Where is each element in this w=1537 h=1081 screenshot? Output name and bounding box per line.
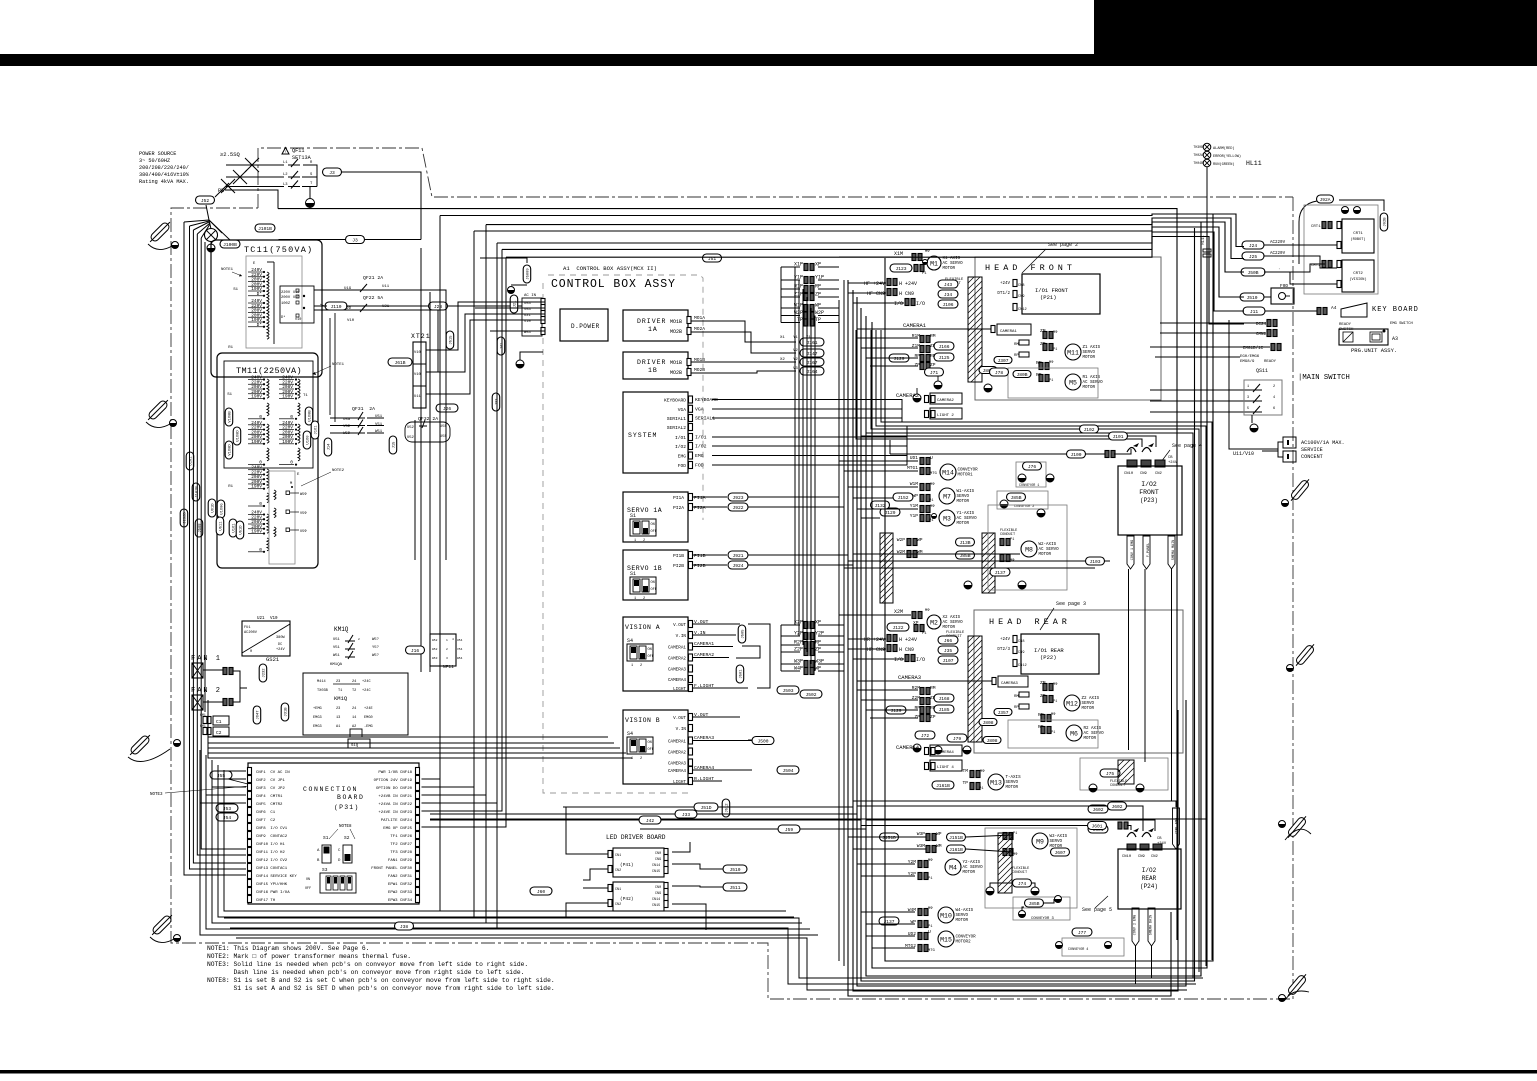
svg-text:TH04B: TH04B — [1193, 161, 1203, 165]
svg-text:J79: J79 — [953, 736, 962, 742]
svg-text:DT1/2: DT1/2 — [997, 291, 1010, 296]
J60 oval — [530, 887, 552, 895]
svg-text:J76: J76 — [1028, 464, 1037, 470]
svg-text:V54: V54 — [524, 308, 532, 312]
svg-text:PI2A: PI2A — [673, 505, 684, 511]
X2P right wires — [818, 625, 844, 671]
motor M1 — [890, 249, 963, 276]
svg-text:+EMG: +EMG — [313, 707, 322, 711]
svg-text:J923: J923 — [732, 495, 743, 501]
svg-text:J129: J129 — [890, 708, 901, 714]
J61B oval — [388, 358, 412, 366]
svg-text:I/O: I/O — [916, 301, 925, 307]
svg-text:CNF14 SERVICE KEY: CNF14 SERVICE KEY — [256, 875, 297, 879]
J15 voval — [389, 436, 397, 454]
svg-text:200/208/220/240/: 200/208/220/240/ — [139, 165, 189, 171]
svg-text:LIGHT 2: LIGHT 2 — [937, 414, 954, 418]
svg-text:MOTOR: MOTOR — [943, 626, 956, 630]
ground below AC IN — [516, 352, 543, 368]
svg-text:A1 CONTROL BOX ASSY(MCX II): A1 CONTROL BOX ASSY(MCX II) — [563, 265, 657, 272]
incoming lines with fuses — [215, 151, 284, 197]
svg-text:Z2 AXIS: Z2 AXIS — [1082, 697, 1100, 701]
see page 2 — [1022, 242, 1078, 273]
svg-text:AC SERVO: AC SERVO — [957, 517, 978, 521]
svg-text:1: 1 — [1247, 385, 1249, 389]
servo wire ovals J161-J164 — [780, 336, 824, 375]
svg-text:TX03B: TX03B — [317, 689, 329, 693]
svg-text:DC: DC — [278, 643, 282, 647]
svg-text:CONDUIT: CONDUIT — [1012, 871, 1028, 875]
D.POWER box — [560, 309, 608, 341]
svg-text:MOTOR: MOTOR — [963, 871, 976, 875]
motor M2 — [887, 608, 963, 636]
svg-text:DC24: DC24 — [1256, 323, 1267, 327]
fan2 — [191, 687, 233, 710]
vision wire drops — [736, 624, 770, 740]
bottom line J560 — [224, 918, 1203, 978]
svg-text:D*: D* — [281, 315, 286, 320]
XT21 wires — [369, 290, 522, 394]
svg-text:SERVO: SERVO — [1082, 702, 1095, 706]
svg-text:U11/V10: U11/V10 — [1233, 451, 1254, 457]
system box — [623, 392, 693, 473]
conveyor3 dashed — [1013, 896, 1070, 922]
svg-text:AC SERVO: AC SERVO — [1084, 732, 1105, 736]
svg-text:TM: TM — [962, 768, 968, 774]
svg-text:CAMERA4: CAMERA4 — [937, 751, 954, 755]
HF wires — [864, 279, 1027, 313]
motor M15 — [905, 929, 976, 953]
motor M12 — [1064, 695, 1100, 711]
svg-text:CN2: CN2 — [615, 903, 621, 907]
svg-text:≥2.5SQ: ≥2.5SQ — [220, 151, 241, 158]
svg-text:3: 3 — [1247, 396, 1249, 400]
J603 oval — [1051, 848, 1070, 856]
svg-text:I/O1: I/O1 — [695, 435, 707, 441]
svg-text:READY: READY — [1264, 360, 1277, 364]
svg-text:J167: J167 — [806, 360, 817, 366]
svg-text:24: 24 — [352, 707, 356, 711]
svg-text:ZP: ZP — [930, 362, 936, 368]
svg-text:VGA: VGA — [678, 407, 687, 413]
F0D box — [1271, 283, 1294, 304]
TM11 label — [236, 366, 302, 376]
svg-text:TF3 CNF28: TF3 CNF28 — [390, 851, 412, 855]
svg-text:M414: M414 — [317, 680, 326, 684]
svg-text:CNF1 CV AC IN: CNF1 CV AC IN — [256, 771, 290, 775]
svg-text:CNF13 CONTAC1: CNF13 CONTAC1 — [256, 867, 288, 871]
svg-text:EMG OP CNF25: EMG OP CNF25 — [383, 827, 412, 831]
svg-text:ON: ON — [648, 741, 652, 745]
svg-text:S1: S1 — [630, 513, 636, 519]
svg-text:P1: P1 — [1049, 379, 1053, 383]
J505 voval — [738, 625, 746, 643]
svg-text:MO2A: MO2A — [694, 326, 705, 332]
svg-text:J505: J505 — [742, 629, 746, 639]
I/O1 FRONT box — [1022, 274, 1100, 314]
svg-text:SERIAL1: SERIAL1 — [667, 416, 687, 422]
J100 line — [890, 440, 1131, 458]
svg-text:I/O1 FRONT: I/O1 FRONT — [1035, 287, 1069, 294]
vision A out labels — [692, 619, 748, 689]
svg-text:T-AXIS: T-AXIS — [1006, 776, 1022, 780]
svg-text:P1: P1 — [929, 519, 934, 523]
IO2F lozenge tails — [1129, 569, 1172, 801]
svg-text:EMG: EMG — [678, 454, 687, 460]
svg-text:V10: V10 — [414, 351, 422, 355]
svg-text:V51: V51 — [333, 646, 341, 650]
J92A oval — [1299, 195, 1334, 264]
svg-text:CN14: CN14 — [652, 864, 660, 868]
I/O1 REAR box — [1021, 634, 1099, 674]
svg-text:J921: J921 — [732, 553, 743, 559]
cable break left 3 — [127, 732, 180, 761]
TM11 outer box — [217, 353, 318, 568]
svg-text:HR CN9: HR CN9 — [867, 647, 885, 653]
svg-text:MΦ: MΦ — [980, 769, 985, 774]
J101B oval — [255, 224, 275, 232]
svg-text:EMG SWITCH: EMG SWITCH — [1390, 322, 1413, 326]
svg-text:MOTOR: MOTOR — [1006, 786, 1019, 790]
svg-text:QF21 2A: QF21 2A — [363, 275, 383, 281]
six line bundle — [856, 330, 1212, 978]
svg-text:CAMERA1: CAMERA1 — [668, 740, 686, 745]
svg-text:CONV 1 EMG: CONV 1 EMG — [1131, 540, 1135, 560]
IO2R bottom lozenges — [1132, 908, 1155, 984]
J59 line — [640, 825, 866, 833]
svg-text:J101: J101 — [1112, 434, 1123, 440]
HR wires — [864, 635, 1027, 669]
svg-text:J15: J15 — [393, 441, 397, 449]
svg-text:P1: P1 — [979, 787, 984, 791]
camera4 box — [896, 744, 962, 756]
svg-text:100Z: 100Z — [281, 302, 291, 306]
hatch conduit front — [968, 277, 982, 382]
svg-text:R2 AXIS: R2 AXIS — [1084, 727, 1102, 731]
svg-text:MOTOR: MOTOR — [1039, 553, 1052, 557]
svg-text:PI1B: PI1B — [694, 553, 706, 559]
control box assy dashed boundary — [543, 275, 703, 793]
svg-text:H CN9: H CN9 — [899, 647, 914, 653]
svg-text:J13B: J13B — [959, 540, 970, 546]
svg-text:J503: J503 — [782, 688, 793, 694]
J11 oval — [1243, 307, 1327, 315]
svg-text:NOTE2: NOTE2 — [332, 469, 345, 473]
svg-text:(P22): (P22) — [1040, 654, 1057, 661]
QF21 QF22 switches — [314, 275, 390, 323]
svg-text:J500: J500 — [757, 738, 768, 744]
servo oval wires — [748, 497, 853, 565]
svg-text:ZP: ZP — [914, 362, 920, 368]
svg-text:H CN9: H CN9 — [899, 291, 914, 297]
camera1 wire — [900, 322, 1031, 335]
NOTE1 tm11 — [312, 363, 345, 375]
motor M8 — [1021, 541, 1059, 557]
svg-text:J502: J502 — [805, 692, 816, 698]
PE fan cluster — [184, 190, 278, 242]
svg-text:ZP: ZP — [914, 714, 920, 720]
svg-text:W51: W51 — [333, 654, 341, 658]
connector pairs X1P-TP — [794, 262, 824, 327]
svg-text:J129: J129 — [893, 356, 904, 362]
svg-text:OPTION DO CNF20: OPTION DO CNF20 — [376, 787, 413, 791]
svg-text:See page 5: See page 5 — [1082, 907, 1112, 913]
svg-text:CRT1: CRT1 — [1311, 225, 1321, 229]
svg-text:1B: 1B — [648, 367, 658, 374]
svg-text:M7: M7 — [943, 494, 951, 501]
svg-text:M5: M5 — [1069, 380, 1077, 387]
svg-text:CNF9 CONTAC2: CNF9 CONTAC2 — [256, 835, 288, 839]
svg-text:M11: M11 — [1067, 350, 1079, 357]
KM1Q upper block — [330, 626, 463, 670]
svg-text:J122: J122 — [892, 625, 903, 631]
svg-text:J602: J602 — [1111, 804, 1122, 810]
motor M11 — [1065, 344, 1101, 360]
svg-text:KEYBOARD: KEYBOARD — [664, 398, 686, 404]
CRT top lamps — [1327, 204, 1361, 214]
P31 note8 switches — [305, 825, 356, 893]
svg-text:L1: L1 — [283, 161, 288, 165]
svg-text:V160B: V160B — [229, 411, 233, 423]
svg-text:T1: T1 — [303, 394, 308, 398]
svg-text:SERVICE: SERVICE — [1301, 447, 1323, 453]
svg-text:AC SERVO: AC SERVO — [1039, 548, 1060, 552]
svg-text:(P42): (P42) — [620, 896, 634, 902]
svg-text:MTG1: MTG1 — [907, 465, 918, 471]
svg-text:PWR I/OB CNF18: PWR I/OB CNF18 — [378, 770, 412, 775]
servo 1A out — [692, 495, 727, 511]
mid bundle extra — [839, 280, 844, 966]
P41 board — [608, 848, 668, 877]
TC11 label — [244, 245, 313, 255]
svg-text:J66: J66 — [944, 638, 953, 644]
svg-text:T1: T1 — [338, 689, 342, 693]
svg-text:T2: T2 — [352, 689, 356, 693]
svg-text:CNF12 I/O CV2: CNF12 I/O CV2 — [256, 858, 288, 863]
svg-text:2: 2 — [358, 638, 360, 641]
svg-text:MOTOR: MOTOR — [956, 919, 969, 923]
svg-text:J501: J501 — [740, 669, 744, 679]
IO2F bottom lozenges — [1127, 536, 1176, 569]
svg-text:J808: J808 — [986, 738, 997, 744]
svg-text:CN9: CN9 — [655, 892, 661, 896]
svg-text:RM: RM — [930, 333, 936, 339]
svg-text:J3: J3 — [329, 170, 335, 176]
svg-text:J77: J77 — [1078, 930, 1087, 936]
cable break left 2 — [145, 397, 176, 427]
svg-text:J26: J26 — [443, 406, 452, 412]
CTRL EMG lozenge — [1173, 808, 1180, 849]
svg-text:CAMERA3: CAMERA3 — [668, 668, 686, 673]
TM11 side ovals left — [217, 408, 244, 539]
svg-text:CAMERA3: CAMERA3 — [668, 762, 686, 767]
J26 oval — [436, 404, 458, 412]
svg-text:J151D: J151D — [882, 835, 896, 841]
svg-text:MOTOR: MOTOR — [957, 500, 970, 504]
J501 voval — [736, 665, 744, 683]
svg-text:J808: J808 — [982, 720, 993, 726]
svg-text:Dash line is needed when pcb's: Dash line is needed when pcb's on convey… — [207, 969, 524, 976]
svg-text:M9: M9 — [1036, 839, 1044, 846]
svg-text:CN2: CN2 — [1151, 855, 1159, 859]
svg-text:CN9: CN9 — [1140, 472, 1148, 476]
svg-text:U160G: U160G — [221, 503, 225, 515]
fan1 — [191, 655, 233, 678]
svg-text:CONTROL BOX ASSY: CONTROL BOX ASSY — [551, 278, 676, 291]
svg-text:FRONT PANEL CNF30: FRONT PANEL CNF30 — [371, 867, 412, 871]
svg-text:POWER SOURCE: POWER SOURCE — [139, 151, 176, 157]
svg-text:+24VB IN CNF21: +24VB IN CNF21 — [378, 795, 412, 799]
svg-text:A2: A2 — [352, 725, 356, 729]
svg-text:CAMERA4: CAMERA4 — [896, 744, 920, 751]
J923 oval — [728, 493, 748, 501]
see page 4 — [1158, 443, 1202, 466]
svg-text:J72: J72 — [921, 733, 930, 739]
svg-text:Y2: Y2 — [793, 358, 798, 362]
svg-text:V5Φ: V5Φ — [300, 511, 307, 516]
svg-text:ON: ON — [306, 878, 310, 882]
front RM ZM pins — [912, 328, 1058, 353]
svg-text:TC11(750VA): TC11(750VA) — [244, 245, 313, 255]
svg-text:S1: S1 — [630, 571, 636, 577]
svg-text:MO1B: MO1B — [670, 319, 682, 325]
TM11 windings left — [227, 375, 269, 466]
servo 1B out — [692, 553, 727, 569]
svg-text:KM1QA: KM1QA — [330, 663, 343, 667]
svg-text:CAMERA2: CAMERA2 — [668, 657, 686, 662]
svg-text:VGA: VGA — [695, 406, 704, 412]
svg-text:J80B: J80B — [1016, 372, 1027, 378]
bottom line J31 — [236, 938, 1187, 990]
IO2 REAR box — [1118, 849, 1181, 909]
svg-text:CNF7 C2: CNF7 C2 — [256, 819, 276, 823]
svg-text:X2: X2 — [780, 358, 785, 362]
svg-text:U5Φ: U5Φ — [300, 529, 307, 534]
svg-text:380W: 380W — [276, 636, 285, 640]
vision B out labels — [692, 712, 752, 782]
svg-text:2: 2 — [446, 648, 448, 651]
svg-text:X1: X1 — [780, 336, 785, 340]
svg-text:M13: M13 — [990, 780, 1002, 787]
svg-text:I/O2: I/O2 — [1142, 867, 1157, 874]
svg-text:J101B: J101B — [258, 226, 272, 232]
svg-text:Z1 AXIS: Z1 AXIS — [1083, 346, 1101, 350]
svg-text:FOD: FOD — [695, 463, 704, 469]
NOTE3 label — [150, 786, 250, 797]
svg-text:W4-AXIS: W4-AXIS — [956, 909, 974, 913]
CRT2 wire — [1264, 264, 1337, 284]
motor M10 — [879, 906, 974, 929]
svg-text:Rating 4kVA MAX.: Rating 4kVA MAX. — [139, 179, 189, 185]
svg-text:TF2 CNF27: TF2 CNF27 — [390, 843, 412, 847]
CB24 line — [866, 820, 1155, 831]
motor M9 — [1003, 832, 1068, 857]
svg-text:J123: J123 — [895, 266, 906, 272]
TC11 windings — [221, 262, 274, 350]
svg-text:24: 24 — [352, 680, 356, 684]
svg-text:J515: J515 — [450, 335, 454, 345]
svg-text:U51D: U51D — [240, 525, 244, 535]
svg-text:CAMERA4: CAMERA4 — [668, 678, 686, 683]
svg-text:J52: J52 — [201, 198, 210, 204]
svg-text:EMG3: EMG3 — [313, 716, 322, 720]
svg-text:OFF: OFF — [648, 748, 654, 752]
cable break top-left — [147, 219, 178, 249]
svg-text:U: U — [928, 929, 931, 935]
svg-text:CAMERA2: CAMERA2 — [937, 399, 954, 403]
breaker ground — [306, 199, 315, 208]
svg-text:J24: J24 — [1249, 243, 1258, 249]
svg-text:FAN2 CNF31: FAN2 CNF31 — [388, 875, 413, 879]
svg-text:(P31): (P31) — [334, 804, 360, 811]
svg-text:C1: C1 — [216, 719, 222, 725]
svg-text:+24V: +24V — [1168, 461, 1178, 465]
svg-text:J232: J232 — [263, 668, 267, 678]
motor M7 — [893, 481, 975, 504]
svg-text:J607: J607 — [1054, 850, 1065, 856]
GS21 box — [242, 621, 290, 663]
svg-text:F.PANEL: F.PANEL — [1147, 543, 1151, 557]
svg-text:CN1: CN1 — [615, 854, 621, 858]
svg-text:NOTE3: Solid line is needed wh: NOTE3: Solid line is needed when pcb's o… — [207, 961, 528, 968]
svg-text:J161: J161 — [806, 340, 817, 346]
svg-text:A1: A1 — [336, 725, 340, 729]
svg-text:+24V: +24V — [1157, 842, 1167, 846]
prg unit assy — [1351, 347, 1397, 354]
mid horizontals 737-758 — [208, 700, 632, 758]
M8 grounds — [964, 581, 1026, 589]
rear RP ZP pins — [886, 704, 1056, 735]
svg-text:J102: J102 — [1083, 427, 1094, 433]
ready switch — [1339, 322, 1413, 332]
svg-text:J602: J602 — [1092, 807, 1103, 813]
svg-text:J107: J107 — [942, 658, 953, 664]
svg-text:DRIVER: DRIVER — [637, 359, 666, 366]
camera2 box — [896, 392, 962, 404]
svg-text:J74: J74 — [1018, 881, 1027, 887]
svg-text:J504: J504 — [782, 768, 793, 774]
svg-text:P1: P1 — [922, 272, 927, 276]
svg-text:CMN1: CMN1 — [1256, 333, 1267, 337]
svg-text:NF11: NF11 — [443, 664, 454, 670]
CRT dashed box — [1304, 205, 1378, 294]
svg-text:EMG3: EMG3 — [313, 725, 322, 729]
J42 line — [430, 816, 861, 824]
J924 oval — [728, 561, 748, 569]
svg-text:V.OUT: V.OUT — [673, 716, 686, 721]
svg-text:CN15: CN15 — [652, 904, 660, 908]
left riser bundle — [422, 216, 507, 828]
svg-text:AC220V: AC220V — [1270, 241, 1286, 245]
svg-text:CONDUIT: CONDUIT — [1000, 533, 1016, 537]
p31 nested loops — [200, 750, 818, 935]
svg-text:J78: J78 — [995, 370, 1004, 376]
svg-text:V.IN: V.IN — [676, 727, 687, 732]
svg-text:J25: J25 — [1249, 254, 1258, 260]
power source label — [139, 151, 190, 185]
svg-text:J92B: J92B — [1384, 217, 1388, 227]
J92B voval — [1380, 213, 1388, 231]
svg-text:UD1: UD1 — [910, 455, 919, 461]
svg-text:FOD: FOD — [678, 463, 687, 469]
svg-text:KM1Q: KM1Q — [334, 695, 348, 702]
svg-text:MO2B: MO2B — [670, 370, 682, 376]
J14 voval — [324, 313, 335, 456]
svg-text:W53: W53 — [432, 657, 438, 660]
vision A box — [623, 617, 693, 692]
svg-text:CN0: CN0 — [655, 886, 661, 890]
HL11 lamps — [1193, 143, 1261, 167]
